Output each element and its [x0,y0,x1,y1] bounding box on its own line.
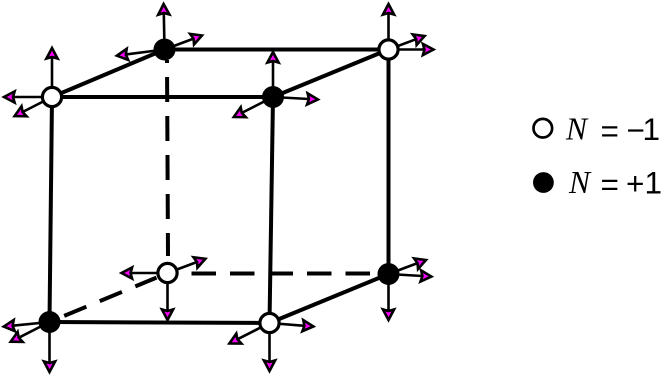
node H (N=+1) [378,263,400,285]
arrow H right [389,270,432,282]
node G (N=-1) [158,263,177,282]
hidden edge bottom-back G-H (dashed) [179,272,378,276]
arrow B up [267,52,278,97]
legend filled-circle symbol [533,172,554,193]
hidden edge back-left vertical C-G (dashed) [167,60,168,256]
cube edge top-left A-C [52,50,165,98]
svg-text:N=−1: N=−1 [565,111,660,149]
node F (N=-1) [260,313,279,332]
cube edge bottom-right F-H [270,274,389,323]
arrow H down [383,274,394,320]
node E (N=+1) [39,311,61,333]
arrow B toward-viewer [231,97,273,122]
arrow F right [270,320,314,332]
arrow E left [3,320,49,332]
cube edge front-right vertical B-F [270,97,274,323]
arrow D up [383,4,394,50]
svg-text:N=+1: N=+1 [568,165,662,203]
arrow C away [165,30,204,49]
node D (N=-1) [379,40,398,59]
arrow H away [389,255,428,274]
arrow D away [389,31,427,50]
arrow A left [4,91,52,102]
cube edge top-front A-B [52,95,273,99]
cube edge bottom-front E-F [50,322,270,323]
hidden edge bottom-left E-G (dashed) [61,278,157,318]
node C (N=+1) [154,39,176,61]
arrow C left [116,49,164,61]
cube edge top-right B-D [273,50,389,98]
arrow A up [46,48,57,97]
node B (N=+1) [262,86,284,108]
legend open-circle symbol [534,119,553,138]
arrow G away [168,254,208,273]
arrow G left [122,267,168,278]
node A (N=-1) [42,87,61,106]
arrow G down [162,273,173,320]
arrow A toward-viewer [12,97,52,121]
arrow D right [389,44,434,55]
arrow B right [273,93,318,105]
arrow E toward-viewer [8,322,49,347]
arrow C up [158,4,169,50]
cube edge top-back C-D [165,48,389,52]
cube edge front-left vertical A-E [50,97,53,322]
arrow E down [44,322,55,372]
arrow F down [264,323,275,371]
arrow F toward-viewer [227,323,270,348]
cube edge back-right vertical D-H [387,50,391,275]
